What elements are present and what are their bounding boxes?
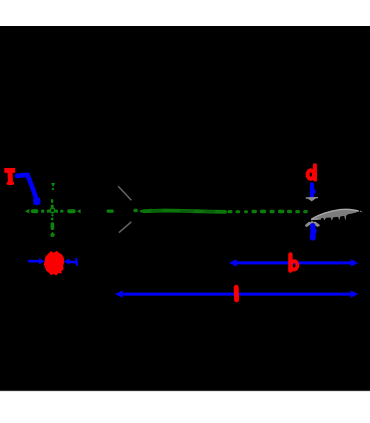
center ring of crosshair	[50, 208, 55, 213]
dimension l line	[119, 293, 354, 296]
label l (red bar)	[234, 287, 239, 300]
leader arrow from T to head center	[17, 175, 40, 205]
blade tip right speckles	[360, 211, 361, 212]
dimension d upper arrowhead (gray, pointing down)	[306, 197, 318, 201]
screw axis centerline	[133, 209, 143, 213]
dimension d lower arrowhead (gray, pointing up)	[306, 222, 319, 226]
countersunk head cone upper line	[118, 186, 131, 200]
dimension l left arrowhead	[115, 290, 123, 297]
dimension b line	[233, 261, 354, 264]
label T	[4, 170, 15, 183]
dimension dk left arrow	[29, 258, 45, 264]
blade left tip light strokes	[311, 218, 321, 221]
dimension d upper extension line	[312, 185, 314, 197]
label b	[290, 254, 297, 270]
dimension b left arrowhead	[229, 259, 237, 266]
countersunk head cone lower line	[119, 222, 131, 233]
label d	[308, 165, 316, 180]
centerline dash between views	[107, 210, 114, 213]
label dk (red scribble)	[45, 252, 63, 274]
dimension b right arrowhead	[351, 259, 359, 266]
centerline crosshair horizontal (front view)	[25, 209, 81, 214]
dimension dk right arrow	[64, 258, 77, 264]
blade top highlight	[312, 209, 359, 219]
screw threaded tip (gray blade)	[311, 209, 359, 221]
panel bottom edge line	[0, 390, 370, 391]
centerline crosshair vertical (front view)	[50, 183, 55, 237]
dimension d lower extension line	[313, 226, 316, 238]
dimension l right arrowhead	[351, 290, 359, 297]
